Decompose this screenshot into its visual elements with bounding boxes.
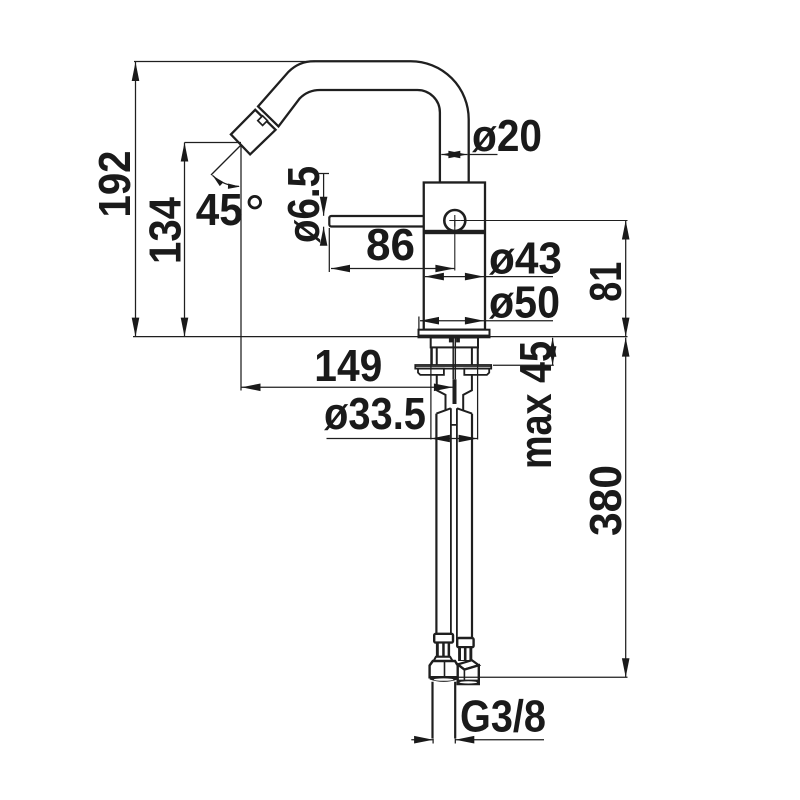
svg-text:149: 149 — [314, 340, 382, 391]
aerator clip notch — [258, 116, 268, 126]
dimension 81 — [625, 221, 627, 337]
right nut bottom band — [458, 680, 479, 685]
svg-text:ø33.5: ø33.5 — [324, 388, 426, 439]
base flange — [419, 330, 490, 338]
dimension max 45 — [493, 364, 554, 366]
45 degree arc — [212, 175, 239, 186]
dimension 380 — [625, 338, 627, 678]
svg-text:max 45: max 45 — [510, 341, 561, 469]
right hex nut — [458, 664, 479, 684]
dimension o6.5 — [319, 174, 329, 242]
hose outer walls — [436, 414, 472, 640]
aerator tip extension line — [240, 146, 242, 391]
svg-text:192: 192 — [89, 151, 140, 218]
stud threaded bar — [453, 379, 457, 404]
hose inner walls — [451, 408, 457, 640]
svg-text:86: 86 — [366, 219, 415, 270]
shank thread tabs — [449, 338, 453, 342]
bracket foot right — [464, 369, 489, 375]
right hose ribs — [458, 647, 472, 661]
spout tube — [258, 61, 469, 182]
supply pipe — [433, 682, 456, 739]
lever ball joint — [444, 210, 465, 231]
deck reference line — [133, 336, 628, 338]
svg-text:134: 134 — [139, 197, 190, 264]
svg-text:380: 380 — [580, 465, 631, 536]
right hex nut top face — [458, 660, 479, 669]
dimension 192 — [134, 62, 315, 337]
aerator nozzle — [231, 110, 276, 155]
dimension 134 — [185, 143, 242, 337]
svg-text:G3/8: G3/8 — [460, 691, 546, 742]
left hose ribs — [436, 643, 450, 657]
left nut flare — [434, 657, 453, 661]
45 degree angle — [211, 146, 241, 176]
mounting bracket bar — [415, 365, 491, 369]
threaded shank — [431, 338, 478, 348]
left hex nut — [430, 661, 458, 677]
svg-text:ø6.5: ø6.5 — [278, 166, 329, 243]
left hose collar — [434, 634, 453, 643]
dimension o50 — [420, 320, 553, 322]
dimension G3/8 — [411, 739, 544, 741]
dimension 149 — [242, 386, 453, 388]
lever center extension line — [460, 220, 627, 222]
ball center cross — [449, 215, 460, 227]
central stud — [453, 338, 455, 380]
flange bottom edge — [419, 335, 490, 338]
tailpiece tube — [437, 375, 472, 411]
dimension o43 — [425, 276, 553, 278]
dimension o33.5 — [327, 438, 478, 440]
supply nut top — [436, 408, 472, 413]
svg-text:45: 45 — [196, 184, 243, 235]
shank tube walls — [432, 347, 478, 365]
lever handle — [329, 216, 449, 227]
dimension o20 — [441, 154, 497, 156]
bracket foot left — [418, 369, 444, 375]
left nut bottom band — [430, 676, 458, 682]
svg-text:ø20: ø20 — [472, 110, 542, 161]
body joint band — [423, 230, 486, 234]
right hose collar — [457, 638, 473, 647]
dimension 86 — [331, 268, 454, 270]
svg-text:81: 81 — [580, 262, 631, 302]
svg-text:ø50: ø50 — [489, 277, 560, 328]
faucet body — [424, 183, 485, 330]
